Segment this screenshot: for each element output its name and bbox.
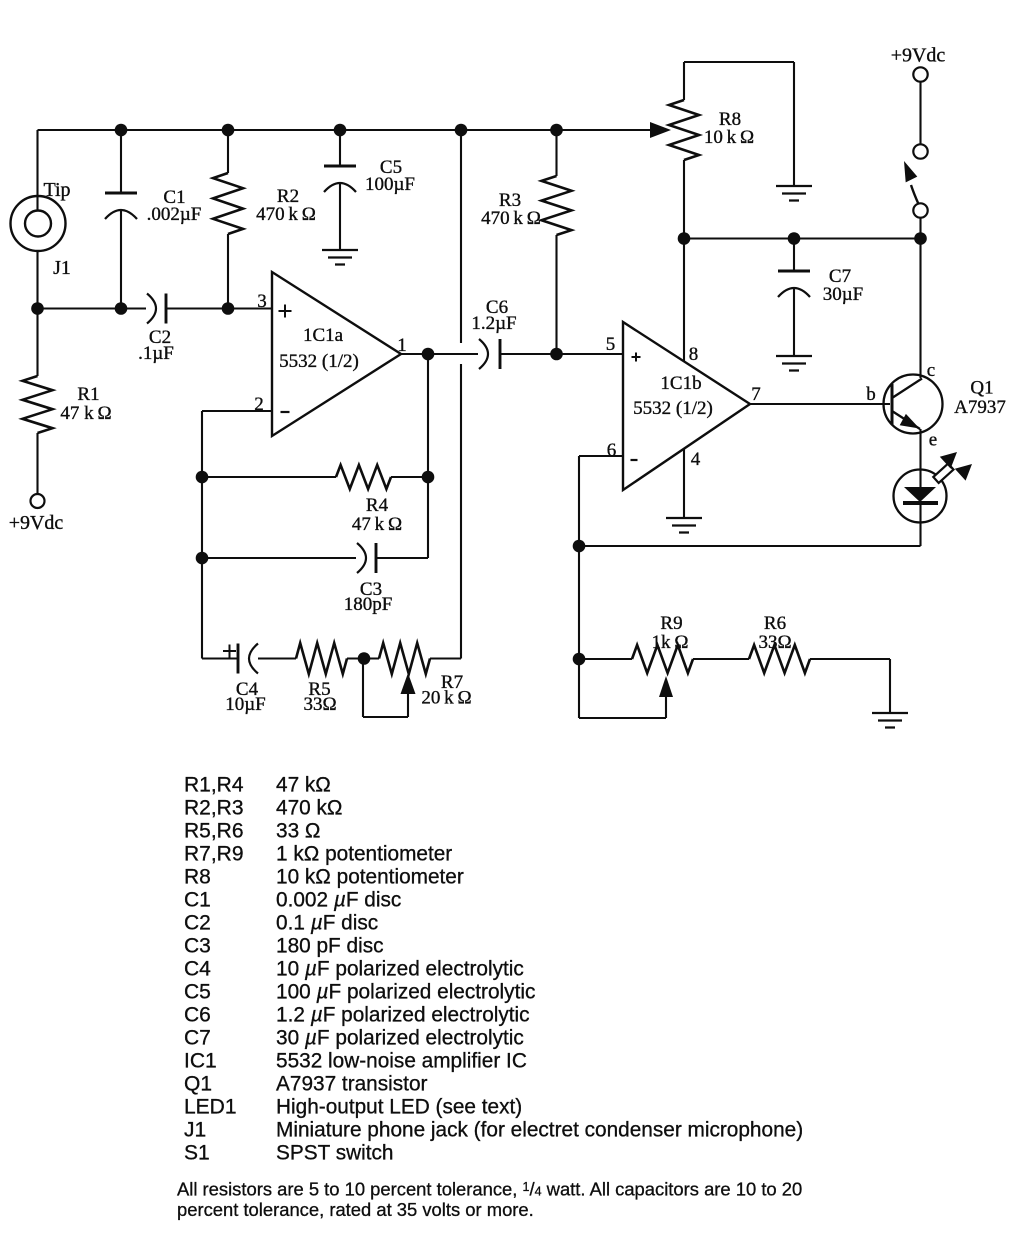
svg-text:1C1b: 1C1b [660, 373, 701, 394]
svg-text:SPST switch: SPST switch [276, 1142, 394, 1165]
svg-text:C7: C7 [184, 1027, 211, 1050]
svg-text:5532 low-noise amplifier IC: 5532 low-noise amplifier IC [276, 1050, 527, 1073]
svg-text:10 k Ω: 10 k Ω [704, 127, 754, 148]
svg-text:R6: R6 [764, 613, 786, 634]
svg-text:.002µF: .002µF [147, 204, 202, 225]
svg-text:30µF: 30µF [823, 284, 864, 305]
svg-text:Miniature phone jack (for elec: Miniature phone jack (for electret conde… [276, 1119, 803, 1142]
svg-text:1 kΩ potentiometer: 1 kΩ potentiometer [276, 843, 452, 866]
svg-text:A7937 transistor: A7937 transistor [276, 1073, 428, 1096]
svg-text:C5: C5 [184, 981, 211, 1004]
svg-text:A7937: A7937 [954, 397, 1006, 418]
svg-text:0.002 µF disc: 0.002 µF disc [276, 889, 401, 912]
svg-text:4: 4 [691, 449, 701, 470]
svg-text:5532 (1/2): 5532 (1/2) [633, 398, 713, 419]
svg-text:R2,R3: R2,R3 [184, 797, 244, 820]
svg-text:LED1: LED1 [184, 1096, 237, 1119]
svg-text:Tip: Tip [43, 179, 70, 201]
svg-text:47 k Ω: 47 k Ω [352, 514, 402, 535]
svg-text:1C1a: 1C1a [303, 325, 344, 346]
svg-text:470 k Ω: 470 k Ω [256, 204, 316, 225]
svg-text:1: 1 [397, 335, 407, 356]
svg-text:1.2 µF polarized electrolytic: 1.2 µF polarized electrolytic [276, 1004, 530, 1027]
svg-text:47 kΩ: 47 kΩ [276, 774, 331, 797]
svg-text:1k Ω: 1k Ω [652, 632, 689, 653]
svg-text:470 k Ω: 470 k Ω [481, 208, 541, 229]
svg-text:3: 3 [257, 291, 267, 312]
svg-text:100µF: 100µF [365, 174, 415, 195]
svg-text:8: 8 [689, 344, 699, 365]
svg-text:b: b [866, 384, 876, 405]
svg-text:0.1 µF disc: 0.1 µF disc [276, 912, 378, 935]
svg-text:100 µF polarized electrolytic: 100 µF polarized electrolytic [276, 981, 535, 1004]
svg-text:All resistors are 5 to 10 perc: All resistors are 5 to 10 percent tolera… [177, 1179, 802, 1200]
svg-text:R9: R9 [660, 613, 682, 634]
svg-text:180pF: 180pF [344, 594, 393, 615]
svg-text:R7,R9: R7,R9 [184, 843, 244, 866]
svg-text:C1: C1 [184, 889, 211, 912]
svg-text:+9Vdc: +9Vdc [891, 45, 946, 67]
svg-text:S1: S1 [184, 1142, 210, 1165]
svg-text:2: 2 [254, 394, 264, 415]
svg-text:10 µF polarized electrolytic: 10 µF polarized electrolytic [276, 958, 524, 981]
svg-text:10µF: 10µF [225, 694, 266, 715]
svg-text:180 pF disc: 180 pF disc [276, 935, 384, 958]
svg-text:C6: C6 [184, 1004, 211, 1027]
svg-text:R8: R8 [184, 866, 211, 889]
svg-text:C4: C4 [184, 958, 211, 981]
svg-text:.1µF: .1µF [138, 343, 174, 364]
svg-text:470 kΩ: 470 kΩ [276, 797, 342, 820]
svg-text:C3: C3 [184, 935, 211, 958]
svg-text:5532 (1/2): 5532 (1/2) [279, 351, 359, 372]
svg-text:J1: J1 [53, 257, 71, 279]
svg-text:+9Vdc: +9Vdc [9, 512, 64, 534]
svg-text:33 Ω: 33 Ω [276, 820, 320, 843]
svg-text:J1: J1 [184, 1119, 206, 1142]
svg-text:6: 6 [607, 440, 617, 461]
svg-text:47 k Ω: 47 k Ω [60, 403, 111, 424]
svg-text:c: c [927, 360, 935, 381]
svg-text:20 k Ω: 20 k Ω [421, 688, 471, 709]
svg-text:5: 5 [606, 334, 616, 355]
svg-text:1.2µF: 1.2µF [471, 313, 516, 334]
svg-text:R1,R4: R1,R4 [184, 774, 244, 797]
svg-text:30 µF polarized electrolytic: 30 µF polarized electrolytic [276, 1027, 524, 1050]
svg-text:R1: R1 [77, 384, 99, 405]
svg-text:R5,R6: R5,R6 [184, 820, 244, 843]
svg-text:C2: C2 [184, 912, 211, 935]
svg-text:Q1: Q1 [970, 378, 993, 399]
svg-text:10 kΩ potentiometer: 10 kΩ potentiometer [276, 866, 464, 889]
svg-text:33Ω: 33Ω [758, 632, 791, 653]
svg-text:IC1: IC1 [184, 1050, 217, 1073]
svg-text:33Ω: 33Ω [303, 694, 336, 715]
svg-text:percent tolerance, rated at 35: percent tolerance, rated at 35 volts or … [177, 1199, 534, 1220]
svg-text:High-output LED (see text): High-output LED (see text) [276, 1096, 522, 1119]
svg-text:7: 7 [751, 384, 761, 405]
svg-text:e: e [929, 430, 937, 451]
svg-text:Q1: Q1 [184, 1073, 212, 1096]
svg-text:R4: R4 [366, 495, 389, 516]
